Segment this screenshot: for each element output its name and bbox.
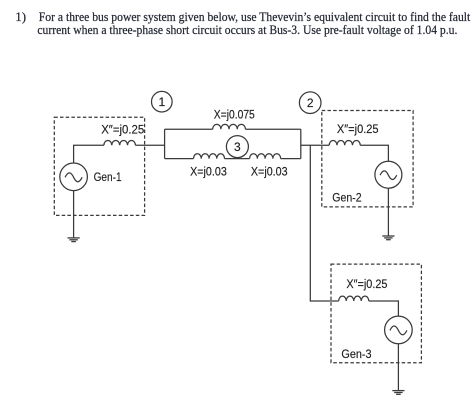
generator G3 [385,316,413,344]
svg-text:current when a three-phase sho: current when a three-phase short circuit… [37,22,457,37]
svg-text:X=j0.03: X=j0.03 [190,167,227,179]
line reactance coil X=j0.03 left [194,154,225,159]
wire bottom branch right segment [281,158,301,160]
reactor coil X"=j0.25 of Gen-3 [339,296,369,301]
svg-text:1: 1 [158,95,165,109]
bus 2 node circle [299,92,321,114]
svg-text:1): 1) [15,9,26,24]
wire bus 2 to Gen-2 reactance [301,144,329,146]
wire Gen-2 reactance to G2 top [360,145,388,161]
wire right edge of parallel line network [300,129,302,158]
reactor coil X"=j0.25 of Gen-1 [104,140,136,145]
Gen-1 unit dashed enclosure [54,117,144,215]
line reactance coil X=j0.075 [213,124,246,129]
svg-text:X″=j0.25: X″=j0.25 [337,124,379,136]
ground of Gen-3 [392,391,404,395]
svg-text:X″=j0.25: X″=j0.25 [346,279,387,291]
wire left edge of parallel line network [164,129,166,158]
wire top branch right segment [245,128,300,130]
wire G1 top to reactance [74,145,104,163]
svg-text:Gen-1: Gen-1 [94,172,122,184]
wire G2 bottom to ground [387,188,389,236]
wire G1 bottom to ground [73,191,75,238]
wire bus 2 junction down to Gen-3 [310,145,338,301]
wire top branch left segment [165,128,213,130]
svg-text:2: 2 [307,96,314,110]
reactor coil X"=j0.25 of Gen-2 [329,140,360,145]
svg-text:Gen-2: Gen-2 [332,192,361,204]
svg-text:Gen-3: Gen-3 [341,349,371,361]
wire bottom branch left segment [165,158,194,160]
Gen-2 unit dashed enclosure [322,111,413,207]
svg-text:X=j0.075: X=j0.075 [214,110,255,122]
svg-text:X″=j0.25: X″=j0.25 [101,124,144,136]
ground of Gen-1 [68,238,80,242]
bus 1 node circle [152,91,173,112]
svg-text:3: 3 [234,140,241,154]
line reactance coil X=j0.03 right [250,154,281,159]
Gen-3 unit dashed enclosure [331,264,421,363]
wire G3 bottom to ground [397,344,399,391]
generator G2 [375,161,402,188]
ground of Gen-2 [382,236,394,240]
generator G1 [60,163,88,191]
bus 3 node circle [226,136,248,158]
wire Gen-3 reactance to G3 top [369,301,399,316]
wire bottom branch middle segment under bus 3 [225,158,250,160]
svg-text:X=j0.03: X=j0.03 [251,167,288,179]
wire Gen-1 reactance to bus 1 [135,144,164,146]
